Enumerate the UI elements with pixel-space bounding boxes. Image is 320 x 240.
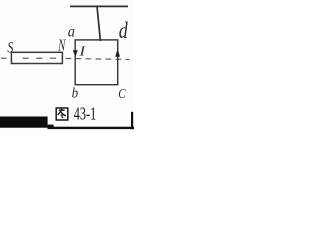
svg-text:d: d [119,19,129,44]
axis dash left of magnet [1,57,7,59]
bottom border line [48,127,135,129]
svg-text:S: S [7,39,13,57]
hanger rod [97,6,100,41]
svg-text:b: b [72,85,79,101]
svg-text:43-1: 43-1 [74,104,96,124]
right border line [131,112,133,129]
background [0,0,134,131]
svg-text:N: N [57,36,66,55]
coil loop abcd [75,40,118,85]
axis dashed line (right portion) [66,58,130,59]
svg-text:C: C [118,86,126,102]
caption character 图 [56,108,68,120]
svg-text:I: I [78,44,86,59]
magnet body [11,52,62,63]
current arrow down (left side ab) [73,50,78,56]
current arrow up (right side dC) [115,49,120,57]
scan artifact: black bar bottom left [0,117,48,128]
svg-text:a: a [68,24,75,41]
axis dashes inside magnet [23,57,64,59]
support bar (ceiling) [70,5,128,7]
